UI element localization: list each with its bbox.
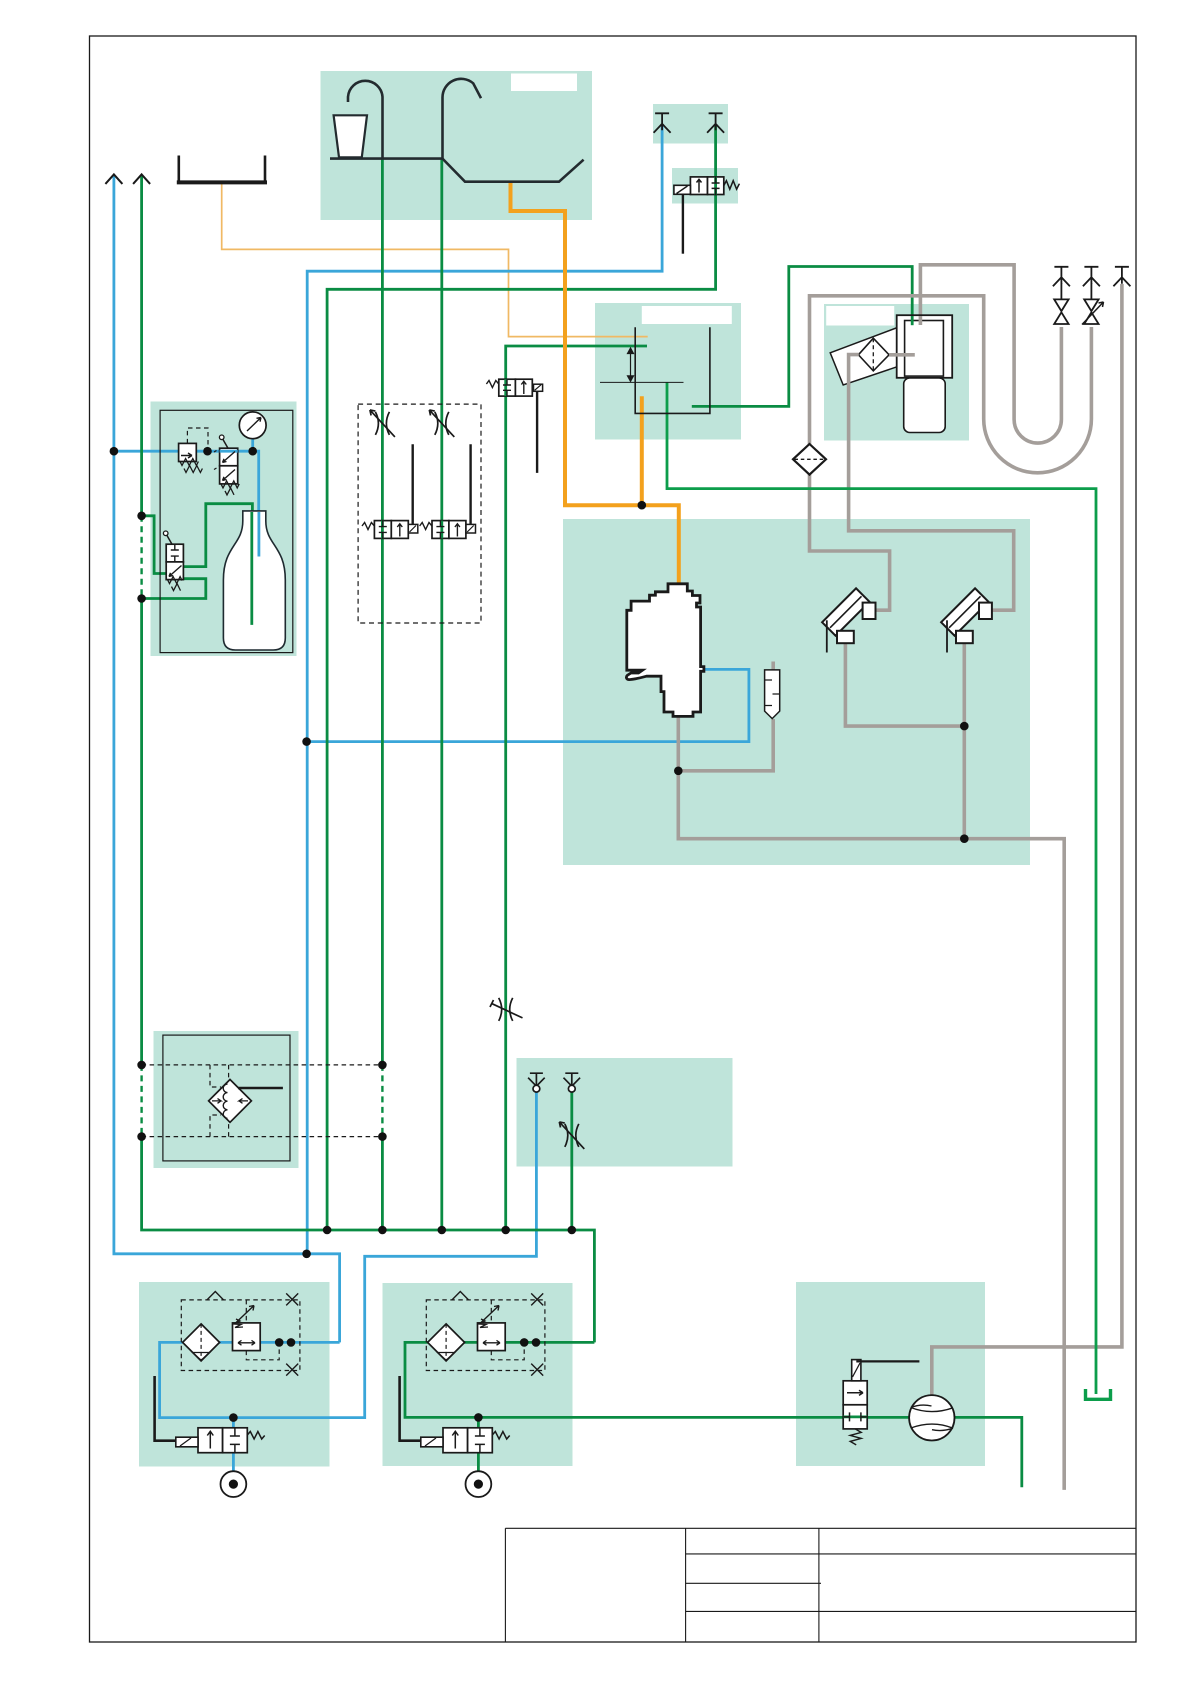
vacuum pump circle — [909, 1395, 954, 1440]
left filter block dashed box — [181, 1300, 300, 1371]
bottle dip tube green — [250, 512, 253, 625]
left filter dashed inner vertical — [245, 1300, 247, 1323]
valve V-b2 (3/2 lever valve lower bottle unit) — [163, 531, 183, 591]
wire: green valve tap right filter block — [477, 1417, 480, 1429]
left filter chevron vent — [207, 1292, 224, 1300]
wire: green cup filler faucet 2 line — [440, 159, 443, 1230]
label box cup filler — [511, 74, 577, 92]
left filter X top — [286, 1293, 298, 1305]
water bottle — [223, 511, 285, 650]
check/filter diamond on suction line — [793, 444, 826, 475]
node: bus dot saliva line — [568, 1226, 577, 1235]
shut-off valve 2 adjustable — [1082, 299, 1104, 324]
node: gray cannula junction 2 — [960, 834, 969, 843]
wire: green right filter block main line — [405, 1342, 1022, 1487]
exhaust above shut-off valve 1 — [1053, 267, 1070, 287]
node: heater dashed right bottom — [378, 1132, 387, 1141]
drain funnel bracket — [1086, 1389, 1111, 1399]
wire: green faucet 1 line lower — [381, 1137, 384, 1230]
valve V-f2 (right filter block valve) — [400, 1376, 510, 1453]
block: vacuum pump background — [796, 1282, 985, 1466]
separator green inlet stub — [911, 316, 914, 325]
block: water bottle unit background — [151, 402, 297, 657]
wire: green line B from top-right valve down page — [327, 126, 715, 1230]
node: right filter valve tap dot — [474, 1413, 483, 1422]
heater dashed top line — [142, 1064, 383, 1066]
node: blue junction after regulator — [203, 447, 212, 456]
block: top-right valve background — [672, 168, 738, 204]
flow control on saliva green line — [559, 1122, 584, 1149]
wire: blue pedal stem left filter block — [232, 1453, 235, 1472]
node: bus dot faucet1 — [378, 1226, 387, 1235]
block: top-right exhaust pair background — [653, 104, 728, 144]
heater coil — [223, 1084, 227, 1118]
heater dashed bottom line — [142, 1136, 383, 1138]
node: bus dot faucet2 — [438, 1226, 447, 1235]
heater dashed taps — [210, 1065, 229, 1137]
exhaust above shut-off valve 2 — [1083, 267, 1100, 287]
wire: green level tank feed and spittoon valve line — [506, 346, 647, 1230]
node: gray syringe junction — [674, 767, 683, 776]
separator filter dashed line — [872, 338, 874, 371]
stem shut-off valve 2 to exhaust — [1090, 283, 1092, 300]
label box level tank — [642, 306, 732, 324]
node: green supply arrow — [133, 174, 150, 184]
left filter dashed pilot loop — [246, 1345, 279, 1360]
faucet 1 (cup filler spout) — [348, 81, 383, 159]
pedal right — [466, 1471, 492, 1497]
pedal left — [221, 1471, 247, 1497]
valve V-c1 (holder valve faucet 1) — [362, 444, 418, 538]
wire: gray vacuum pump exhaust riser — [932, 284, 1122, 1396]
separator tilted filter housing — [830, 324, 921, 386]
wire: gray syringe branch — [678, 662, 773, 771]
sink basin top-left — [177, 156, 267, 183]
wire: gray cannula bottom links — [845, 642, 964, 839]
wire: blue line B from exhaust via page left — [307, 126, 662, 1254]
wire: green bottle valve upper branch with dip tube — [183, 504, 252, 624]
shut-off valve 1 — [1054, 299, 1068, 324]
valve V-vac (vacuum pump valve) — [843, 1360, 919, 1445]
node: green bottle tap upper — [137, 512, 146, 521]
separator vessel inner — [905, 321, 944, 377]
wire: green cup filler faucet 1 line solid top — [381, 159, 384, 1065]
node: bus dot green B — [323, 1226, 332, 1235]
wire: blue water supply riser A — [114, 176, 340, 1342]
separator motor — [904, 378, 946, 433]
wire overlay: gray separator filter stubs — [849, 355, 915, 385]
exhaust symbol above green line B — [707, 113, 724, 133]
left filter X bottom — [286, 1364, 298, 1376]
right filter X top — [531, 1293, 543, 1305]
syringe body — [765, 670, 780, 719]
node: bus dot spittoon line — [501, 1226, 510, 1235]
node: heater dashed left bottom — [137, 1132, 146, 1141]
block: suction machine background — [563, 519, 1030, 865]
cup (tumbler) — [334, 115, 367, 157]
wire: thin orange drain from sink to level tank — [222, 183, 648, 337]
node: blue tee at regulator feed — [110, 447, 119, 456]
wire: green faucet 1 dashed pilot segment — [381, 1065, 383, 1137]
wire: green level tank outlet to separator — [692, 267, 912, 407]
node: right filter port dot 2 — [532, 1338, 541, 1347]
node: blue junction at gauge — [248, 447, 257, 456]
block: cup filler unit background — [321, 71, 593, 220]
label box separator — [826, 306, 894, 326]
heater arrows — [212, 1099, 248, 1104]
node: left filter port dot 1 — [275, 1338, 284, 1347]
block: level tank background — [595, 303, 741, 440]
left filter diamond — [183, 1324, 220, 1361]
separator filter diamond — [858, 338, 889, 371]
separator gray outlet stub — [919, 316, 923, 325]
wire: green riser A solid middle — [140, 599, 143, 1065]
cup filler pipe rail — [330, 157, 443, 160]
separator vessel outer — [897, 315, 953, 378]
right filter diamond — [428, 1324, 465, 1361]
dashed pilot line regulator — [187, 428, 208, 448]
node: left filter port dot 2 — [287, 1338, 296, 1347]
cuspidor bowl outline — [443, 159, 584, 182]
saliva tip green — [564, 1073, 581, 1092]
node: heater dashed left top — [137, 1061, 146, 1070]
right filter chevron vent — [452, 1292, 469, 1300]
wire: blue regulator feed in bottle unit — [114, 451, 259, 555]
wire: gray separator tank to shut-off valve 1 — [920, 265, 1061, 443]
suction machine body — [626, 584, 703, 717]
flow control on faucet2 line — [429, 410, 454, 437]
dashed assembly box (cup filler valves) — [358, 404, 481, 623]
node: left filter valve tap dot — [229, 1413, 238, 1422]
heater diamond — [209, 1080, 252, 1123]
node: blue dot at supply join — [302, 1250, 311, 1259]
wire: gray left cannula suction to shut-off valve 2 — [810, 296, 1092, 610]
exhaust above pump riser — [1113, 267, 1130, 287]
left suction cannula — [822, 588, 875, 652]
valve V-top (3/2 lever valve top right) — [674, 177, 740, 254]
block: right filter-regulator background — [383, 1283, 573, 1466]
wire: green riser A dashed pilot segment 1 — [140, 516, 142, 599]
valve V-b1 (3/2 lever valve upper bottle unit) — [214, 435, 239, 495]
valve V-f1 (left filter block valve) — [155, 1376, 265, 1453]
left filter regulator — [233, 1306, 261, 1351]
stem shut-off valve 1 to exhaust — [1060, 283, 1062, 300]
wire: thick orange cuspidor drain — [511, 182, 679, 585]
heater inner frame — [163, 1035, 290, 1161]
wire: green saliva tip line — [570, 1092, 573, 1230]
exhaust symbol above blue line B — [654, 113, 671, 133]
valve V-c2 (holder valve faucet 2) — [420, 444, 476, 538]
throttle on spittoon valve line — [490, 998, 523, 1021]
pressure gauge — [239, 412, 266, 439]
valve V-sp (spittoon water valve) — [486, 379, 542, 473]
node: blue machine branch tee — [302, 737, 311, 746]
wire: gray suction machine drain main — [678, 715, 1064, 1490]
node: right filter port dot 1 — [520, 1338, 529, 1347]
wire: green bottle valve inlet branch — [142, 516, 167, 574]
block: separator background — [824, 304, 969, 441]
level tank water line — [600, 381, 684, 383]
saliva tip blue — [528, 1073, 545, 1092]
right suction cannula — [941, 588, 992, 652]
wire: blue filter block main line — [160, 1091, 537, 1418]
heater element lead — [238, 1087, 283, 1090]
node: heater dashed right top — [378, 1061, 387, 1070]
pressure regulator (bottle unit) — [179, 443, 203, 472]
flow control on faucet1 line — [370, 410, 395, 437]
wire: blue to suction machine — [307, 669, 749, 741]
bottle unit inner frame — [160, 410, 293, 652]
right filter X bottom — [531, 1364, 543, 1376]
wire: blue gauge stem — [251, 437, 254, 451]
wire: orange branch from level tank — [640, 396, 644, 505]
wire: green bottle valve lower branch — [142, 579, 206, 599]
node: orange junction — [638, 501, 647, 510]
level tank walls — [635, 327, 710, 413]
wire: green riser A dashed pilot segment 2 — [140, 1065, 142, 1137]
level double arrow — [628, 348, 634, 381]
block: left filter-regulator background — [139, 1282, 330, 1467]
title block — [505, 1528, 1136, 1642]
wire: green air supply riser A solid top — [140, 176, 143, 516]
wire: green pedal stem right filter block — [477, 1453, 480, 1472]
node: blue supply arrow — [105, 174, 122, 184]
wire: green level tank overflow to drain funnel — [667, 382, 1096, 1394]
wire: green riser A lower + air bus — [142, 1137, 595, 1343]
wire: gray right cannula to separator filter — [849, 355, 1014, 611]
node: gray cannula junction 1 — [960, 722, 969, 731]
right filter regulator — [478, 1306, 506, 1351]
right filter block dashed box — [426, 1300, 545, 1371]
wire: blue valve tap left filter block — [232, 1418, 235, 1429]
block: saliva ejector tips background — [517, 1058, 733, 1167]
bottle dip tube blue — [257, 512, 260, 557]
node: green bottle tap lower — [137, 594, 146, 603]
right filter dashed inner vertical — [490, 1300, 492, 1323]
right filter dashed pilot loop — [491, 1345, 524, 1360]
block: heater background — [154, 1031, 299, 1168]
faucet 2 (bowl rinse spout) — [442, 79, 481, 159]
